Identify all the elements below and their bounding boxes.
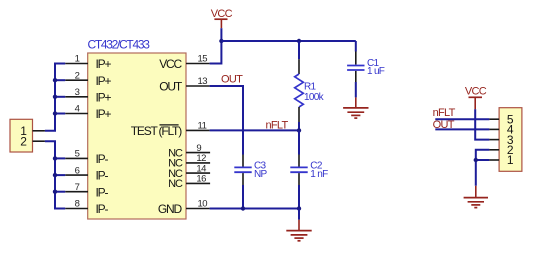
wire OUT to J2 pin4 (435, 128, 489, 130)
wire VCC stub to rail (220, 28, 222, 41)
connector J2 pin 1 (489, 153, 513, 167)
connector J1 pin 2 (20, 134, 45, 148)
junction nFLT at R1/C2 (297, 128, 301, 132)
label NP (254, 169, 268, 180)
pin 16 NC (168, 174, 210, 191)
wire C2 to GND rail (298, 185, 300, 209)
ground symbol under C2 (286, 220, 311, 241)
label R1 (304, 82, 317, 93)
svg-text:IP+: IP+ (96, 74, 112, 88)
junction VCC rail at R1 (297, 39, 301, 43)
ground symbol right (464, 186, 488, 208)
svg-text:R1: R1 (304, 82, 317, 93)
junction IP+ pin2 (53, 78, 57, 82)
svg-text:OUT: OUT (159, 80, 183, 94)
svg-text:6: 6 (75, 165, 80, 176)
label 1 nF (310, 169, 328, 180)
svg-text:IP-: IP- (96, 185, 109, 199)
net label nFLT (266, 120, 289, 132)
junction IP+ pin3 (53, 95, 57, 99)
junction VCC rail left (219, 39, 223, 43)
wire C1 to ground (355, 82, 357, 97)
wire J1 pin1 to IP+ bus (45, 64, 65, 131)
svg-text:4: 4 (75, 104, 80, 115)
wire pin13 OUT (210, 86, 243, 155)
wire GND rail to ground (298, 209, 300, 220)
svg-text:1: 1 (75, 54, 80, 65)
svg-text:3: 3 (75, 87, 80, 98)
pin 10 GND (158, 199, 210, 216)
svg-text:IP-: IP- (96, 152, 109, 166)
connector J1 pin 1 (20, 124, 45, 138)
svg-text:CT432/CT433: CT432/CT433 (88, 38, 151, 52)
IC title CT432/CT433 (88, 38, 151, 52)
svg-text:NC: NC (168, 178, 183, 190)
connector J2 pin 4 (489, 123, 513, 137)
pin 14 NC (168, 163, 210, 180)
svg-text:13: 13 (198, 76, 208, 87)
IC CT432/CT433 body (88, 53, 186, 219)
pin 5 IP- (65, 149, 108, 166)
pin 8 IP- (65, 199, 108, 216)
junction GND rail at C2 (297, 206, 301, 210)
svg-text:2: 2 (75, 70, 80, 81)
wire R1 top lead (298, 41, 300, 74)
pin 15 VCC (159, 54, 209, 71)
label C3 (254, 160, 267, 171)
wire nFLT to J2 pin5 (435, 118, 489, 120)
connector J1 body (10, 119, 33, 152)
svg-text:15: 15 (198, 54, 208, 65)
wire VCC rail (221, 40, 355, 42)
svg-text:16: 16 (196, 174, 206, 185)
svg-text:8: 8 (75, 199, 80, 210)
wire J2 pin1 (476, 159, 490, 161)
connector J2 pin 5 (489, 112, 513, 126)
junction IP+ pin4 (53, 111, 57, 115)
label C2 (310, 160, 323, 171)
net label nFLT right (433, 107, 456, 119)
svg-text:OUT: OUT (221, 74, 243, 86)
svg-text:VCC: VCC (465, 86, 487, 98)
svg-text:IP-: IP- (96, 202, 109, 216)
label 1 uF (367, 66, 385, 77)
ground symbol under C1 (343, 97, 368, 118)
svg-text:5: 5 (75, 149, 80, 160)
connector J2 pin 2 (489, 143, 513, 157)
wire C3 to GND rail (242, 185, 244, 209)
power VCC symbol right (465, 86, 487, 110)
wire VCC to J2 pin3 (475, 109, 489, 139)
wire J2 pin2 to ground (476, 150, 490, 186)
power VCC symbol left (211, 8, 233, 28)
svg-text:IP+: IP+ (96, 90, 112, 104)
pin 12 NC (168, 153, 210, 170)
pin 9 NC (168, 143, 210, 160)
pin 4 IP+ (65, 104, 111, 121)
junction IP- pin5 (53, 156, 57, 160)
wire IP- pin5 stub (55, 157, 65, 159)
svg-text:NP: NP (254, 169, 268, 180)
capacitor C3 (234, 155, 251, 186)
junction GND rail at C3 (241, 206, 245, 210)
svg-text:11: 11 (198, 121, 207, 132)
label C1 (367, 58, 380, 69)
wire IP- pin7 stub (55, 191, 65, 193)
wire IP+ pin2 stub (55, 79, 65, 81)
svg-text:VCC: VCC (211, 8, 233, 20)
wire pin15 to VCC rail (210, 41, 222, 64)
svg-text:IP+: IP+ (96, 107, 112, 121)
svg-text:IP+: IP+ (96, 57, 112, 71)
pin 11 TEST (FLT) (131, 121, 210, 138)
svg-text:TEST (FLT): TEST (FLT) (131, 124, 182, 138)
resistor R1 (295, 74, 304, 107)
svg-text:7: 7 (75, 182, 80, 193)
svg-text:1 uF: 1 uF (367, 66, 385, 77)
wire R1 bottom lead (298, 107, 300, 130)
wire GND rail pin10 (210, 208, 299, 210)
svg-text:GND: GND (158, 202, 183, 216)
wire IP+ pin4 stub (55, 113, 65, 115)
pin 7 IP- (65, 182, 108, 199)
svg-text:1 nF: 1 nF (310, 169, 328, 180)
svg-text:100k: 100k (304, 92, 325, 103)
svg-text:nFLT: nFLT (433, 107, 456, 119)
net label OUT (221, 74, 243, 86)
svg-text:nFLT: nFLT (266, 120, 289, 132)
capacitor C2 (290, 130, 307, 185)
connector J2 pin 3 (489, 133, 513, 147)
connector J2 body (499, 108, 522, 172)
svg-text:VCC: VCC (159, 57, 182, 71)
svg-text:OUT: OUT (433, 119, 455, 131)
junction J2 ground (474, 158, 478, 162)
label 100k (304, 92, 325, 103)
svg-text:IP-: IP- (96, 169, 109, 183)
pin 6 IP- (65, 165, 108, 182)
junction IP- pin7 (53, 190, 57, 194)
junction IP- pin6 (53, 173, 57, 177)
wire J1 pin2 to IP- bus (45, 141, 65, 208)
wire IP+ pin3 stub (55, 96, 65, 98)
wire IP- pin6 stub (55, 174, 65, 176)
net label OUT right (433, 119, 455, 131)
capacitor C1 (347, 41, 364, 82)
pin 2 IP+ (65, 70, 111, 87)
svg-text:10: 10 (198, 199, 208, 210)
pin 1 IP+ (65, 54, 111, 71)
pin 13 OUT (159, 76, 209, 93)
pin 3 IP+ (65, 87, 111, 104)
wire nFLT rail pin11 (210, 129, 299, 131)
